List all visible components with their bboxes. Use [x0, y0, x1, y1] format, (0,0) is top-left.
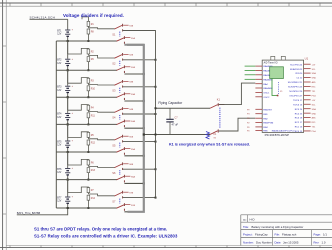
- svg-text:BT1: BT1: [57, 30, 62, 32]
- svg-text:47 uF: 47 uF: [172, 122, 179, 126]
- svg-text:12V: 12V: [57, 145, 62, 147]
- svg-text:Rev:: Rev:: [314, 240, 320, 244]
- svg-text:BT4: BT4: [57, 114, 62, 116]
- svg-text:SDA: SDA: [312, 72, 317, 75]
- svg-text:R10: R10: [91, 88, 96, 90]
- svg-text:OSC2: OSC2: [263, 97, 270, 99]
- svg-text:RA0/AL2/AUX/PC3-PC0: RA0/AL2/AUX/PC3-PC0: [272, 130, 295, 133]
- svg-text:OSC/PB C27: OSC/PB C27: [289, 95, 303, 97]
- svg-text:SDA/PGD23: SDA/PGD23: [290, 68, 303, 71]
- svg-text:S3B: S3B: [129, 82, 134, 84]
- svg-text:S6A: S6A: [131, 175, 136, 178]
- svg-text:12V: 12V: [57, 63, 62, 65]
- svg-text:RC5 24: RC5 24: [295, 109, 303, 111]
- svg-text:H-D: H-D: [250, 217, 255, 221]
- svg-text:Voltage dividers if required.: Voltage dividers if required.: [63, 13, 124, 18]
- svg-text:PGd: PGd: [312, 95, 316, 97]
- svg-text:S4B: S4B: [129, 109, 134, 111]
- svg-text:Number:: Number:: [243, 240, 254, 244]
- svg-text:RC3 18: RC3 18: [295, 118, 303, 120]
- svg-text:C2 22: C2 22: [296, 78, 303, 80]
- svg-text:S2B: S2B: [129, 55, 134, 57]
- svg-text:SCK/SPR C25: SCK/SPR C25: [288, 87, 303, 89]
- svg-text:S2A: S2A: [131, 66, 136, 69]
- svg-text:S6B: S6B: [129, 164, 134, 166]
- svg-text:RC4 23: RC4 23: [295, 113, 303, 115]
- svg-text:FlyingCap: FlyingCap: [255, 233, 268, 237]
- svg-text:Flatcap.sch: Flatcap.sch: [282, 233, 297, 237]
- svg-text:S1A: S1A: [131, 37, 136, 40]
- svg-text:12V: 12V: [57, 90, 62, 92]
- svg-text:Battery monitoring with a Flyi: Battery monitoring with a Flying Capacit…: [252, 225, 304, 229]
- svg-text:S3A: S3A: [131, 93, 136, 96]
- svg-text:File:: File:: [275, 233, 281, 237]
- svg-text:A/D Timer I/O: A/D Timer I/O: [264, 61, 278, 64]
- svg-text:Doc Number: Doc Number: [256, 240, 272, 244]
- svg-text:VDD20: VDD20: [295, 73, 303, 75]
- svg-text:RB0/INT: RB0/INT: [263, 109, 272, 111]
- svg-text:K1 is energized only when S1-S: K1 is energized only when S1-S7 are rele…: [169, 142, 250, 146]
- svg-text:S5: S5: [112, 143, 116, 147]
- svg-text:S5A: S5A: [131, 148, 136, 151]
- svg-text:GND: GND: [312, 78, 317, 80]
- svg-text:S3: S3: [112, 89, 116, 93]
- svg-text:BT3: BT3: [57, 87, 62, 89]
- svg-text:U1: U1: [305, 57, 309, 61]
- svg-text:BT6: BT6: [57, 169, 62, 171]
- svg-text:12V: 12V: [57, 201, 62, 203]
- svg-text:S7: S7: [112, 199, 116, 203]
- svg-text:12V: 12V: [57, 172, 62, 174]
- svg-text:SDA: SDA: [312, 108, 317, 111]
- svg-text:Flying Capacitor: Flying Capacitor: [158, 101, 183, 105]
- svg-text:Jan 15 2005: Jan 15 2005: [283, 240, 299, 244]
- svg-text:BT5: BT5: [57, 141, 62, 143]
- svg-text:RB3/PGM: RB3/PGM: [263, 123, 273, 125]
- svg-text:SDO/PBR C21: SDO/PBR C21: [288, 82, 303, 84]
- svg-text:BT7: BT7: [57, 197, 62, 199]
- svg-text:PIC16F876-20/SP: PIC16F876-20/SP: [265, 133, 289, 137]
- svg-text:Date:: Date:: [275, 240, 282, 244]
- svg-text:S1 thru S7 are DPDT relays. On: S1 thru S7 are DPDT relays. Only one rel…: [34, 226, 167, 231]
- svg-text:OSC1: OSC1: [263, 93, 270, 95]
- svg-text:R13: R13: [91, 170, 96, 172]
- svg-text:K1: K1: [217, 98, 221, 102]
- svg-text:S4A: S4A: [131, 120, 136, 123]
- svg-text:Project:: Project:: [243, 233, 253, 237]
- svg-text:S7B: S7B: [129, 192, 134, 194]
- svg-text:12V: 12V: [57, 117, 62, 119]
- svg-text:12V: 12V: [57, 34, 62, 36]
- svg-text:R12: R12: [91, 143, 96, 145]
- svg-text:S4: S4: [112, 116, 116, 120]
- svg-text:S5B: S5B: [129, 136, 134, 138]
- svg-text:cc:: cc:: [243, 217, 247, 221]
- svg-text:PGd: PGd: [312, 131, 316, 133]
- svg-text:TX/C6 16: TX/C6 16: [293, 104, 303, 106]
- svg-text:Title:: Title:: [243, 225, 249, 229]
- svg-text:RC0 15: RC0 15: [295, 131, 303, 133]
- svg-text:Page:: Page:: [314, 233, 322, 237]
- svg-text:S2: S2: [112, 62, 116, 66]
- svg-text:RC2 17: RC2 17: [295, 122, 303, 124]
- svg-text:1/1: 1/1: [323, 233, 327, 237]
- svg-text:S1: S1: [112, 32, 116, 36]
- svg-text:R14: R14: [91, 198, 96, 200]
- svg-text:S1B: S1B: [129, 25, 134, 27]
- svg-text:TX/C6 17: TX/C6 17: [293, 100, 303, 102]
- svg-text:1.0: 1.0: [322, 240, 326, 244]
- svg-text:S7A: S7A: [131, 204, 136, 207]
- svg-text:BT2: BT2: [57, 60, 62, 62]
- svg-text:GND: GND: [312, 113, 317, 115]
- svg-text:SCL/PGC24: SCL/PGC24: [290, 64, 303, 66]
- svg-text:S1-S7 Relay coils are controll: S1-S7 Relay coils are controlled with a …: [34, 233, 178, 238]
- svg-text:NC/SPB C26: NC/SPB C26: [289, 91, 303, 93]
- svg-text:S6: S6: [112, 171, 116, 175]
- svg-text:RC1 16: RC1 16: [295, 127, 303, 129]
- svg-text:BAT1_Thru_BAT6B: BAT1_Thru_BAT6B: [17, 211, 41, 215]
